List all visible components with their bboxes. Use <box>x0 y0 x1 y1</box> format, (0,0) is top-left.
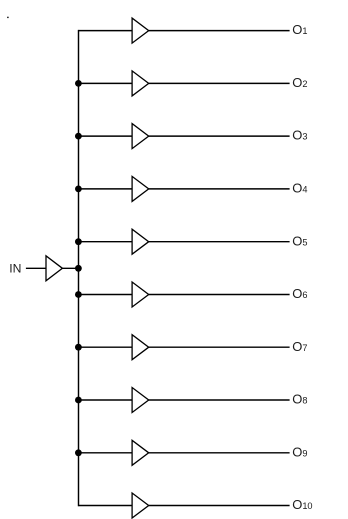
wire bus to buffer 8 <box>79 399 133 401</box>
output buffer 10 <box>132 493 149 518</box>
wire IN to input buffer <box>26 267 46 269</box>
junction dot input to bus <box>75 265 82 272</box>
wire bus to buffer 2 <box>79 82 133 84</box>
junction dot row 2 <box>75 80 82 87</box>
wire buffer 8 to output O8 <box>149 399 290 401</box>
wire buffer 7 to output O7 <box>149 346 290 348</box>
svg-text:IN: IN <box>9 261 21 275</box>
wire buffer 5 to output O5 <box>149 241 290 243</box>
junction dot row 8 <box>75 397 82 404</box>
wire bus to buffer 6 <box>79 294 133 296</box>
junction dot row 3 <box>75 133 82 140</box>
output buffer 7 <box>132 335 149 360</box>
wire buffer 2 to output O2 <box>149 82 290 84</box>
wire buffer 3 to output O3 <box>149 135 290 137</box>
junction dot row 4 <box>75 186 82 193</box>
output buffer 9 <box>132 440 149 465</box>
wire buffer 6 to output O6 <box>149 294 290 296</box>
wire bus to buffer 10 <box>79 505 133 507</box>
wire buffer 10 to output O10 <box>149 505 290 507</box>
wire buffer 4 to output O4 <box>149 188 290 190</box>
wire input buffer output to bus <box>62 267 79 269</box>
wire buffer 9 to output O9 <box>149 452 290 454</box>
wire buffer 1 to output O1 <box>149 30 290 32</box>
junction dot row 6 <box>75 291 82 298</box>
junction dot row 9 <box>75 449 82 456</box>
vertical bus wire <box>78 30 80 506</box>
output buffer 3 <box>132 124 149 149</box>
wire bus to buffer 1 <box>79 30 133 32</box>
output buffer 2 <box>132 71 149 96</box>
output buffer 4 <box>132 176 149 201</box>
wire bus to buffer 4 <box>79 188 133 190</box>
output buffer 6 <box>132 282 149 307</box>
wire bus to buffer 9 <box>79 452 133 454</box>
output buffer 1 <box>132 18 149 43</box>
output buffer 5 <box>132 229 149 254</box>
stray dot mark top-left <box>7 17 8 18</box>
junction dot row 5 <box>75 238 82 245</box>
input buffer <box>46 256 62 281</box>
wire bus to buffer 7 <box>79 346 133 348</box>
junction dot row 7 <box>75 344 82 351</box>
wire bus to buffer 5 <box>79 241 133 243</box>
wire bus to buffer 3 <box>79 135 133 137</box>
output buffer 8 <box>132 388 149 413</box>
